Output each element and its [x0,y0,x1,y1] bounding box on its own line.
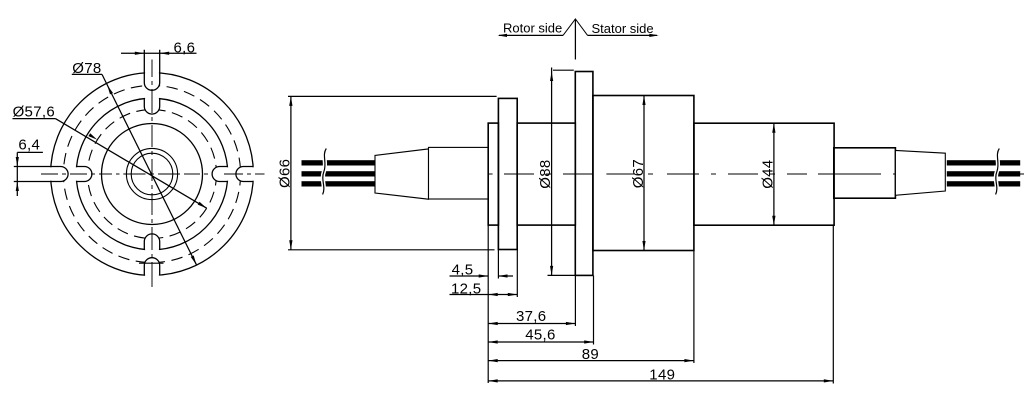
bottom outer slot [144,258,159,275]
svg-text:Ø88: Ø88 [537,159,554,188]
right outer slot [236,167,253,182]
dashed circle D57.6 [88,110,217,239]
leader line D78 [102,74,196,264]
top outer slot [144,50,159,90]
dim D67 [643,96,645,251]
dim 12,5 [450,294,518,296]
dimension 6,6 (top slot) [121,52,197,54]
left lead wire 2 [302,171,377,176]
dimension 6,4 (left slot) [17,151,43,153]
left lead wire 3 [302,181,377,186]
dash across bottom slot [139,262,164,264]
left boot [429,147,489,199]
divider vertical line [574,19,576,60]
main flange D88 [575,72,593,276]
cylinder between flanges [517,123,575,225]
svg-text:Ø57,6: Ø57,6 [13,103,55,120]
extension line x517 [516,250,518,297]
dim 37,6 [488,323,575,325]
dim D44 [773,123,775,225]
svg-text:Rotor side: Rotor side [503,21,562,36]
dim D88 [551,68,553,276]
rotor side arrow [499,34,563,36]
hub circle outer [126,148,177,199]
extension line x833 [832,225,834,383]
outer circle (flange) [51,73,254,276]
leader line D57.6 [55,119,206,209]
svg-text:6,4: 6,4 [18,137,40,154]
circle D66 (rotor flange) [76,98,228,250]
svg-text:149: 149 [649,367,675,384]
svg-text:Ø67: Ø67 [630,159,647,188]
stator body D44 [694,123,834,225]
left lead wire 1 [302,160,377,165]
left strain-relief cone [375,149,429,199]
extension line x575 [574,276,576,327]
extension line at datum x488 [487,225,489,383]
extension line x593 [593,276,595,345]
divider peak [563,19,588,35]
right lead wire 1 [947,160,1020,165]
extension line x498 [497,225,499,278]
vertical centerline [151,60,153,78]
svg-text:6,6: 6,6 [174,39,196,56]
right lead wire 3 [947,181,1020,186]
side view centerline [376,173,410,175]
extension line x694 [693,251,695,363]
svg-text:Ø66: Ø66 [276,159,293,188]
top inner slot [144,99,159,114]
svg-text:4,5: 4,5 [452,261,474,278]
dim 45,6 [488,341,594,343]
label D57.6 underline [13,118,56,120]
right lead wire 2 [947,171,1020,176]
circle D44 (stator body) [102,124,203,225]
svg-text:Ø78: Ø78 [72,60,101,77]
rotor flange D66 [498,98,517,249]
left wire break mark [323,149,327,195]
right inner slot [212,167,227,182]
spacer disc (4.5) [488,123,498,225]
label D78 underline [72,73,102,75]
svg-text:45,6: 45,6 [525,326,555,343]
slot opening erases [45,167,67,180]
svg-text:12,5: 12,5 [451,281,481,298]
stator side arrow [588,34,657,36]
dim D66 [290,96,292,249]
hub circle inner (bore) [131,153,173,195]
dim 4,5 [450,275,489,277]
left outer slot [14,167,68,182]
svg-text:37,6: 37,6 [516,308,546,325]
horizontal centerline (dash-dot) [41,173,58,175]
stator body D67 [593,96,694,251]
dim 89 [488,360,694,362]
svg-text:Stator side: Stator side [592,21,654,36]
dim 149 [488,380,833,382]
left inner slot [77,167,92,182]
right wire break mark [996,149,1000,195]
svg-text:Ø44: Ø44 [760,160,777,189]
right strain-relief cone [895,150,945,195]
bottom inner slot [144,234,159,249]
stator shaft [834,148,896,198]
dashed circle D78 (bolt circle) [63,85,240,262]
svg-text:89: 89 [582,346,599,363]
